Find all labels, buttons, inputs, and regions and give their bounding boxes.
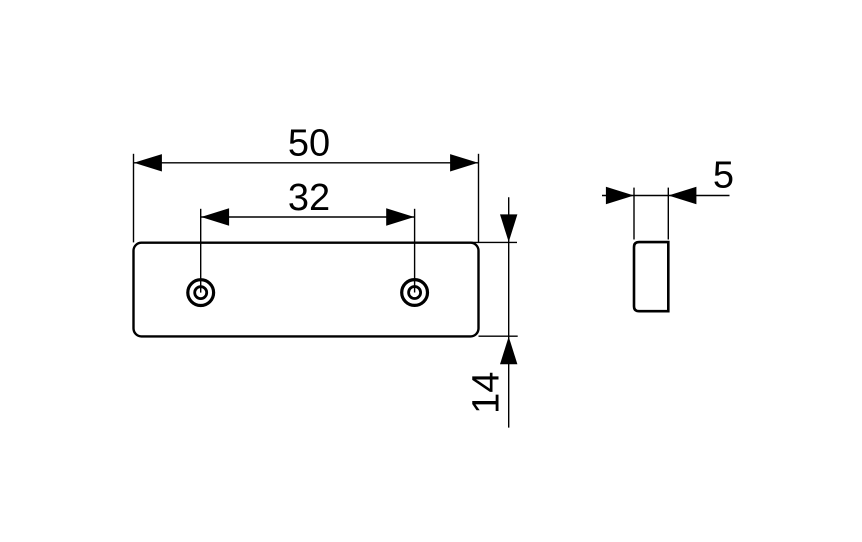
dim 5 right extension line xyxy=(667,188,669,240)
svg-text:50: 50 xyxy=(288,123,330,165)
hole right outer circle xyxy=(402,280,428,306)
dim 5 dimension line xyxy=(602,195,730,197)
dim 32 right arrowhead xyxy=(386,208,414,225)
hole left inner circle xyxy=(195,287,207,299)
dim 50 dimension line xyxy=(134,162,479,164)
hole right inner circle xyxy=(409,287,421,299)
front view plate xyxy=(134,243,479,337)
hole left outer circle xyxy=(188,280,214,306)
dim 32 left extension line xyxy=(200,209,202,293)
svg-text:32: 32 xyxy=(288,177,330,219)
dim 14 bottom arrowhead xyxy=(500,337,517,365)
dim 32 right extension line xyxy=(414,209,416,293)
dim 5 left arrowhead xyxy=(606,187,634,204)
dim 5 right arrowhead xyxy=(668,187,696,204)
dim 50 left arrowhead xyxy=(134,154,162,171)
dim 14 bottom extension line xyxy=(479,335,518,337)
dim 5 left extension line xyxy=(633,188,635,240)
svg-text:5: 5 xyxy=(713,155,734,197)
dim 32 dimension line xyxy=(201,216,415,218)
dim 32 left arrowhead xyxy=(201,208,229,225)
dim 14 top extension line xyxy=(471,241,517,243)
dim 50 right extension line xyxy=(478,154,480,243)
dim 50 left extension line xyxy=(133,154,135,243)
dim 14 top arrowhead xyxy=(500,214,517,242)
side view rect xyxy=(634,242,668,311)
svg-text:14: 14 xyxy=(465,372,507,414)
dim 14 dimension line xyxy=(508,197,510,427)
dim 50 right arrowhead xyxy=(450,154,478,171)
